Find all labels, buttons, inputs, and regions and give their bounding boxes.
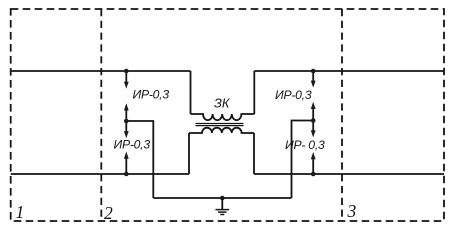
svg-text:2: 2 xyxy=(104,203,113,223)
wire: bottom rail right xyxy=(254,173,444,175)
svg-text:ИР-0,3: ИР-0,3 xyxy=(133,87,170,101)
transformer ЗК core xyxy=(196,124,244,126)
wire: transformer secondary right lead xyxy=(253,133,255,174)
svg-text:3: 3 xyxy=(347,201,357,221)
wire: top rail left xyxy=(11,70,191,72)
wire: left midpoint tap to ground bus xyxy=(126,121,153,198)
ground xyxy=(215,196,229,215)
junction dot: left top rail xyxy=(124,69,129,74)
svg-text:ИР- 0,3: ИР- 0,3 xyxy=(285,138,325,152)
signal arrow ИР-0,3 right upper (up) xyxy=(311,102,316,121)
wire: transformer primary left lead xyxy=(190,71,192,114)
junction dot: right bottom rail xyxy=(311,172,316,177)
wire: ground bus xyxy=(153,197,291,199)
junction dot: left bottom rail xyxy=(124,172,129,177)
svg-text:ЗК: ЗК xyxy=(214,96,231,111)
signal arrow ИР-0,3 left lower (down) xyxy=(124,121,129,138)
signal arrow ИР-0,3 left lower (up) xyxy=(124,152,129,175)
wire: bottom rail left xyxy=(11,173,189,175)
wire: right midpoint tap to ground bus xyxy=(292,121,314,199)
wire: transformer primary right lead xyxy=(253,71,255,114)
signal arrow ИР-0,3 right lower (up) xyxy=(311,152,316,174)
svg-text:ИР-0,3: ИР-0,3 xyxy=(114,137,151,151)
transformer ЗК secondary winding xyxy=(189,128,254,133)
svg-text:1: 1 xyxy=(16,202,25,222)
signal arrow ИР-0,3 right lower (down) xyxy=(311,121,316,138)
wire: transformer secondary left lead xyxy=(188,133,190,174)
junction dot: right midpoint xyxy=(311,118,316,123)
section divider between zone 1 and zone 2 xyxy=(100,9,102,221)
wire: top rail right xyxy=(254,70,444,72)
signal arrow ИР-0,3 left upper (down) xyxy=(124,71,129,89)
signal arrow ИР-0,3 left upper (up) xyxy=(124,103,129,121)
junction dot: right top rail xyxy=(311,69,316,74)
junction dot: left midpoint xyxy=(124,119,129,124)
section divider between zone 2 and zone 3 xyxy=(341,9,343,221)
transformer ЗК primary winding xyxy=(191,114,255,120)
svg-text:ИР-0,3: ИР-0,3 xyxy=(275,88,312,102)
signal arrow ИР-0,3 right upper (down) xyxy=(311,71,316,88)
